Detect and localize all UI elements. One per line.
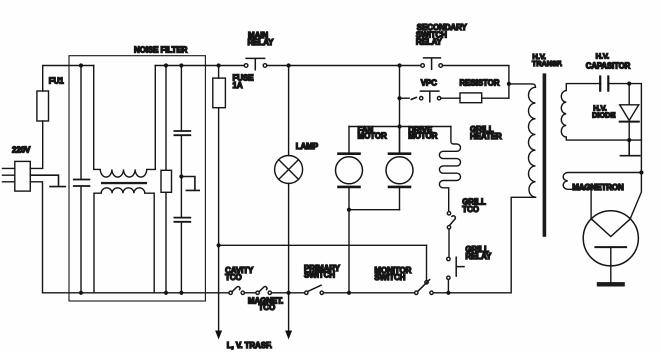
svg-text:1A: 1A — [233, 81, 243, 90]
svg-text:MAGNETRON: MAGNETRON — [572, 183, 624, 192]
wire bottom bus right — [433, 197, 535, 292]
svg-text:SWITCH: SWITCH — [374, 273, 405, 282]
capacitor C2 (filter, upper) — [174, 66, 190, 217]
node junction motors common — [347, 208, 351, 212]
wire plug to fuse — [30, 121, 42, 168]
fuse FU1 — [37, 91, 49, 121]
svg-text:RESISTOR: RESISTOR — [460, 78, 500, 87]
node junction HV feed — [507, 82, 511, 86]
ground (magnetron) — [597, 282, 625, 286]
svg-text:CAPASITOR: CAPASITOR — [586, 62, 631, 71]
fuse 1A — [213, 66, 226, 331]
inductor L2 (choke bottom winding) — [94, 188, 154, 293]
svg-text:H.V.: H.V. — [596, 51, 610, 60]
wire cavity to magnet TCO — [245, 292, 256, 294]
node junction motor branch tap — [397, 63, 401, 67]
main relay contact — [244, 58, 267, 69]
arrow L.V. transformer lead 2 — [285, 331, 292, 340]
svg-text:RELAY: RELAY — [416, 37, 443, 46]
svg-text:MOTOR: MOTOR — [358, 132, 387, 141]
node junction C2/C3 midpoint — [179, 174, 183, 178]
node junction lamp line bottom bus — [287, 291, 291, 295]
ground (filter) — [181, 177, 199, 191]
choke core — [101, 182, 147, 184]
wire cap line to magnetron — [630, 173, 641, 219]
node junction bottom of C1 line — [79, 291, 83, 295]
transformer T1 filament winding — [563, 173, 641, 219]
svg-text:SWITCH: SWITCH — [304, 271, 335, 280]
wire fuse to top bus — [43, 66, 94, 92]
diode D1 HV — [620, 84, 639, 141]
wire motor branch vertical — [399, 66, 401, 154]
cavity TCO switch — [229, 287, 245, 295]
node junction lamp tap — [287, 63, 291, 67]
wire primary to monitor switch — [324, 292, 415, 294]
drive motor M2 — [386, 127, 413, 210]
transformer T1 HV secondary winding — [561, 84, 641, 141]
node junction top of C1 line — [79, 63, 83, 67]
capacitor C1 (filter series, left) — [74, 66, 90, 293]
wire neutral to bottom bus — [30, 182, 42, 293]
svg-text:TCO: TCO — [225, 273, 242, 282]
capacitor C4 HV — [600, 77, 641, 173]
secondary switch relay contact — [421, 58, 443, 69]
svg-text:220V: 220V — [12, 145, 31, 154]
wire fuse tee horizontal — [219, 244, 427, 246]
node junction fan line bottom bus — [347, 291, 351, 295]
node junction magnetron anode feed — [639, 170, 643, 174]
svg-text:RELAY: RELAY — [248, 38, 275, 47]
primary switch — [305, 285, 324, 294]
fan motor M1 — [336, 127, 363, 210]
wire resistor to HV junction — [482, 97, 509, 99]
grill TCO switch — [447, 212, 455, 258]
svg-text:VPC: VPC — [421, 78, 437, 87]
node junction top of C2 — [179, 63, 183, 67]
noise filter box — [69, 56, 205, 301]
capacitor C3 (filter, lower) — [174, 218, 190, 293]
transformer T1 primary winding — [509, 84, 536, 197]
ground (under diode) — [620, 140, 639, 156]
svg-text:DIODE: DIODE — [592, 111, 615, 120]
VPC switch — [400, 91, 441, 102]
wire main relay to secondary relay — [267, 65, 421, 67]
wire magnet TCO to primary switch — [272, 292, 305, 294]
arrow L.V. transformer lead 1 — [215, 331, 222, 340]
svg-text:TCO: TCO — [462, 205, 479, 214]
svg-text:LAMP: LAMP — [296, 142, 319, 151]
wire top bus filter to main relay — [155, 65, 243, 67]
node junction bottom of C3 — [179, 291, 183, 295]
svg-text:FU1: FU1 — [49, 77, 64, 86]
wire motors bus — [349, 126, 451, 128]
ground (plug) — [30, 175, 65, 186]
grill heater element — [439, 127, 460, 212]
svg-text:NOISE FILTER: NOISE FILTER — [134, 45, 188, 54]
svg-text:RELAY: RELAY — [465, 252, 492, 261]
node junction VPC tap — [397, 96, 401, 100]
plug 220V — [3, 161, 31, 191]
inductor L1 (choke top winding) — [94, 66, 156, 178]
node junction fuse tee — [217, 243, 221, 247]
magnetron V1 — [583, 211, 638, 282]
node junction top of R1 — [164, 63, 168, 67]
node junction diode top — [627, 82, 631, 86]
wire motors common — [349, 210, 400, 293]
node junction motors bus tap — [397, 124, 401, 128]
resistor R2 — [460, 93, 482, 103]
wire bottom bus left — [43, 292, 229, 294]
resistor R1 (filter) — [161, 66, 172, 293]
monitor switch — [415, 245, 434, 294]
svg-text:HEATER: HEATER — [470, 132, 502, 141]
svg-text:TCO: TCO — [259, 303, 276, 312]
grill relay contact — [447, 257, 464, 293]
node junction fuse1A tap — [217, 63, 221, 67]
node junction diode bottom — [627, 138, 631, 142]
svg-text:TRANSF.: TRANSF. — [532, 59, 562, 68]
wire VPC to resistor — [441, 97, 460, 99]
wire secondary relay to HV junction — [443, 66, 509, 98]
svg-text:L, V. TRASF.: L, V. TRASF. — [227, 341, 272, 350]
node junction bottom of R1 — [164, 291, 168, 295]
transformer T1 core — [543, 73, 547, 236]
lamp — [275, 66, 303, 331]
node junction grill line bottom bus — [446, 291, 450, 295]
magnet TCO switch — [256, 287, 272, 295]
svg-text:MOTOR: MOTOR — [408, 132, 437, 141]
